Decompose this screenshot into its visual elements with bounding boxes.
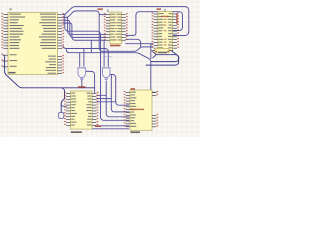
bus entry below H1 — [153, 55, 156, 58]
U3 left pins — [154, 13, 158, 15]
vertical red label right of U3 — [176, 13, 178, 25]
U3 red text inside top — [161, 16, 169, 17]
junction dot top-left — [9, 8, 12, 11]
U2 label below — [110, 45, 121, 47]
wire: U4 bottom-right pin to U5 left pin — [97, 125, 129, 127]
U4 left pins — [66, 93, 70, 95]
U4 right pins — [92, 93, 96, 95]
U4 label below — [71, 131, 82, 133]
wire: U1 lower-left pins down around to bottom run — [3, 55, 65, 112]
IC U3 buffer — [158, 11, 173, 50]
U3 designator above — [157, 8, 162, 10]
U2 left pins — [106, 14, 110, 16]
wire: short link from x99.2 vertical to U2 pin row 0 — [99, 14, 106, 16]
U5 label below — [131, 131, 141, 133]
wire: U1 row2 to U2 left pin row 8 — [63, 20, 106, 37]
U2 red mid marks — [115, 17, 117, 18]
wire: bottom run continues to gate A aux vertical — [63, 87, 95, 89]
U5 right pins top — [152, 92, 156, 94]
resistor R? label — [95, 126, 101, 128]
U1 pin name text lower-left — [10, 54, 17, 55]
wire: gate G1 side line right then down to U4 top right — [86, 71, 95, 92]
wire: U2 right pin to U3 bottom-left pin — [126, 43, 154, 45]
wire: vertical x111.3 elbow to U5 pin — [111, 75, 128, 112]
wire: U1 row3 to U2 left pin row 9 — [63, 23, 106, 40]
U5 left pins — [126, 92, 130, 94]
wire: from U1 pin2 junction to U2 left pin row 7 — [68, 17, 106, 34]
wire: mid-right H1 loop via crystal right pin — [146, 52, 179, 66]
U5 right pins bottom — [152, 114, 156, 116]
IC U1 interrupt controller — [8, 13, 58, 75]
IC U5 UART bottom right — [130, 90, 152, 130]
wire: top loop A from U1 pin1 over top to U3 right side — [63, 7, 189, 36]
faint net label near gate G2 feeds — [104, 56, 108, 57]
wire: branch vertical from y43.7 down to W2 join — [150, 44, 152, 59]
wire: W1 from U1 pin2 diag over y10.9, down x99.2, bus y51.3 to U3 area — [63, 11, 153, 51]
U1 pin name text left column — [10, 14, 21, 15]
U1 pin name text right column — [40, 14, 56, 15]
U3 inner text — [159, 13, 164, 14]
wire: drop from U2 pin row to bus W2 — [90, 40, 92, 52]
wire: U2 right pin down to y47 line — [126, 39, 141, 47]
U3 right pins — [173, 13, 177, 15]
wire: U4 right pin links — [97, 94, 107, 96]
U1 left pins upper group — [3, 14, 8, 16]
U1 footer text inside bottom-left — [9, 72, 16, 74]
gate G2 2-input gate pointing down — [102, 66, 110, 80]
U3 red mid marks — [164, 19, 167, 20]
U5 designator above — [131, 88, 136, 90]
U4 inner text — [71, 93, 75, 94]
power symbol below — [59, 112, 64, 118]
wire: U1 pin1 junction down, across y31, long drop x100.5 to U5 pin elbow — [65, 15, 129, 121]
IC U4 bottom middle — [71, 91, 93, 129]
wire: mid-right H3 — [151, 51, 179, 62]
wire: gate G1 left input feed — [79, 53, 81, 66]
U5 inner text — [131, 92, 136, 93]
wire: top loop B from U2 right pin up over to U3 right side — [126, 12, 183, 36]
U5 red text row inside — [131, 109, 145, 110]
wire: mid bus y48.5 from U1 pin to gate G2 right input — [63, 46, 108, 66]
U4 designator above — [78, 86, 86, 88]
U1 left pins lower group — [3, 54, 8, 56]
crystal X1 under U3 — [151, 48, 173, 53]
U1 right pins lower group — [58, 56, 63, 58]
U1 pin name text lower-right — [48, 56, 56, 57]
U1 right pins upper group — [58, 14, 63, 16]
U2 top power pin stub — [107, 9, 109, 12]
IC U2 latch — [110, 12, 122, 44]
wire: gate G1 right input feed — [83, 49, 85, 67]
wire: lower link row — [92, 128, 129, 130]
U2 inner text — [111, 14, 116, 15]
U3 top power pin stub — [164, 9, 166, 12]
wire: U1 lower-left pin stubs join vertical — [3, 60, 5, 62]
wire: branch into U4 left pin — [61, 105, 66, 107]
wire: gate G1 output to bottom bus — [81, 80, 83, 88]
wire: T drop to gate G2 left input — [103, 40, 105, 66]
wire: gate G2 side line down elbow to U5 pin — [110, 75, 128, 106]
gate G1 2-input gate pointing down — [78, 66, 86, 80]
U2 designator above — [98, 8, 104, 10]
sheet background — [0, 0, 200, 137]
wire: gate G2 output down elbow to U5 pin — [106, 81, 129, 117]
wire: long bus W2 y52.7 down to U5 top right pin — [66, 49, 156, 93]
U2 right pins — [122, 14, 126, 16]
